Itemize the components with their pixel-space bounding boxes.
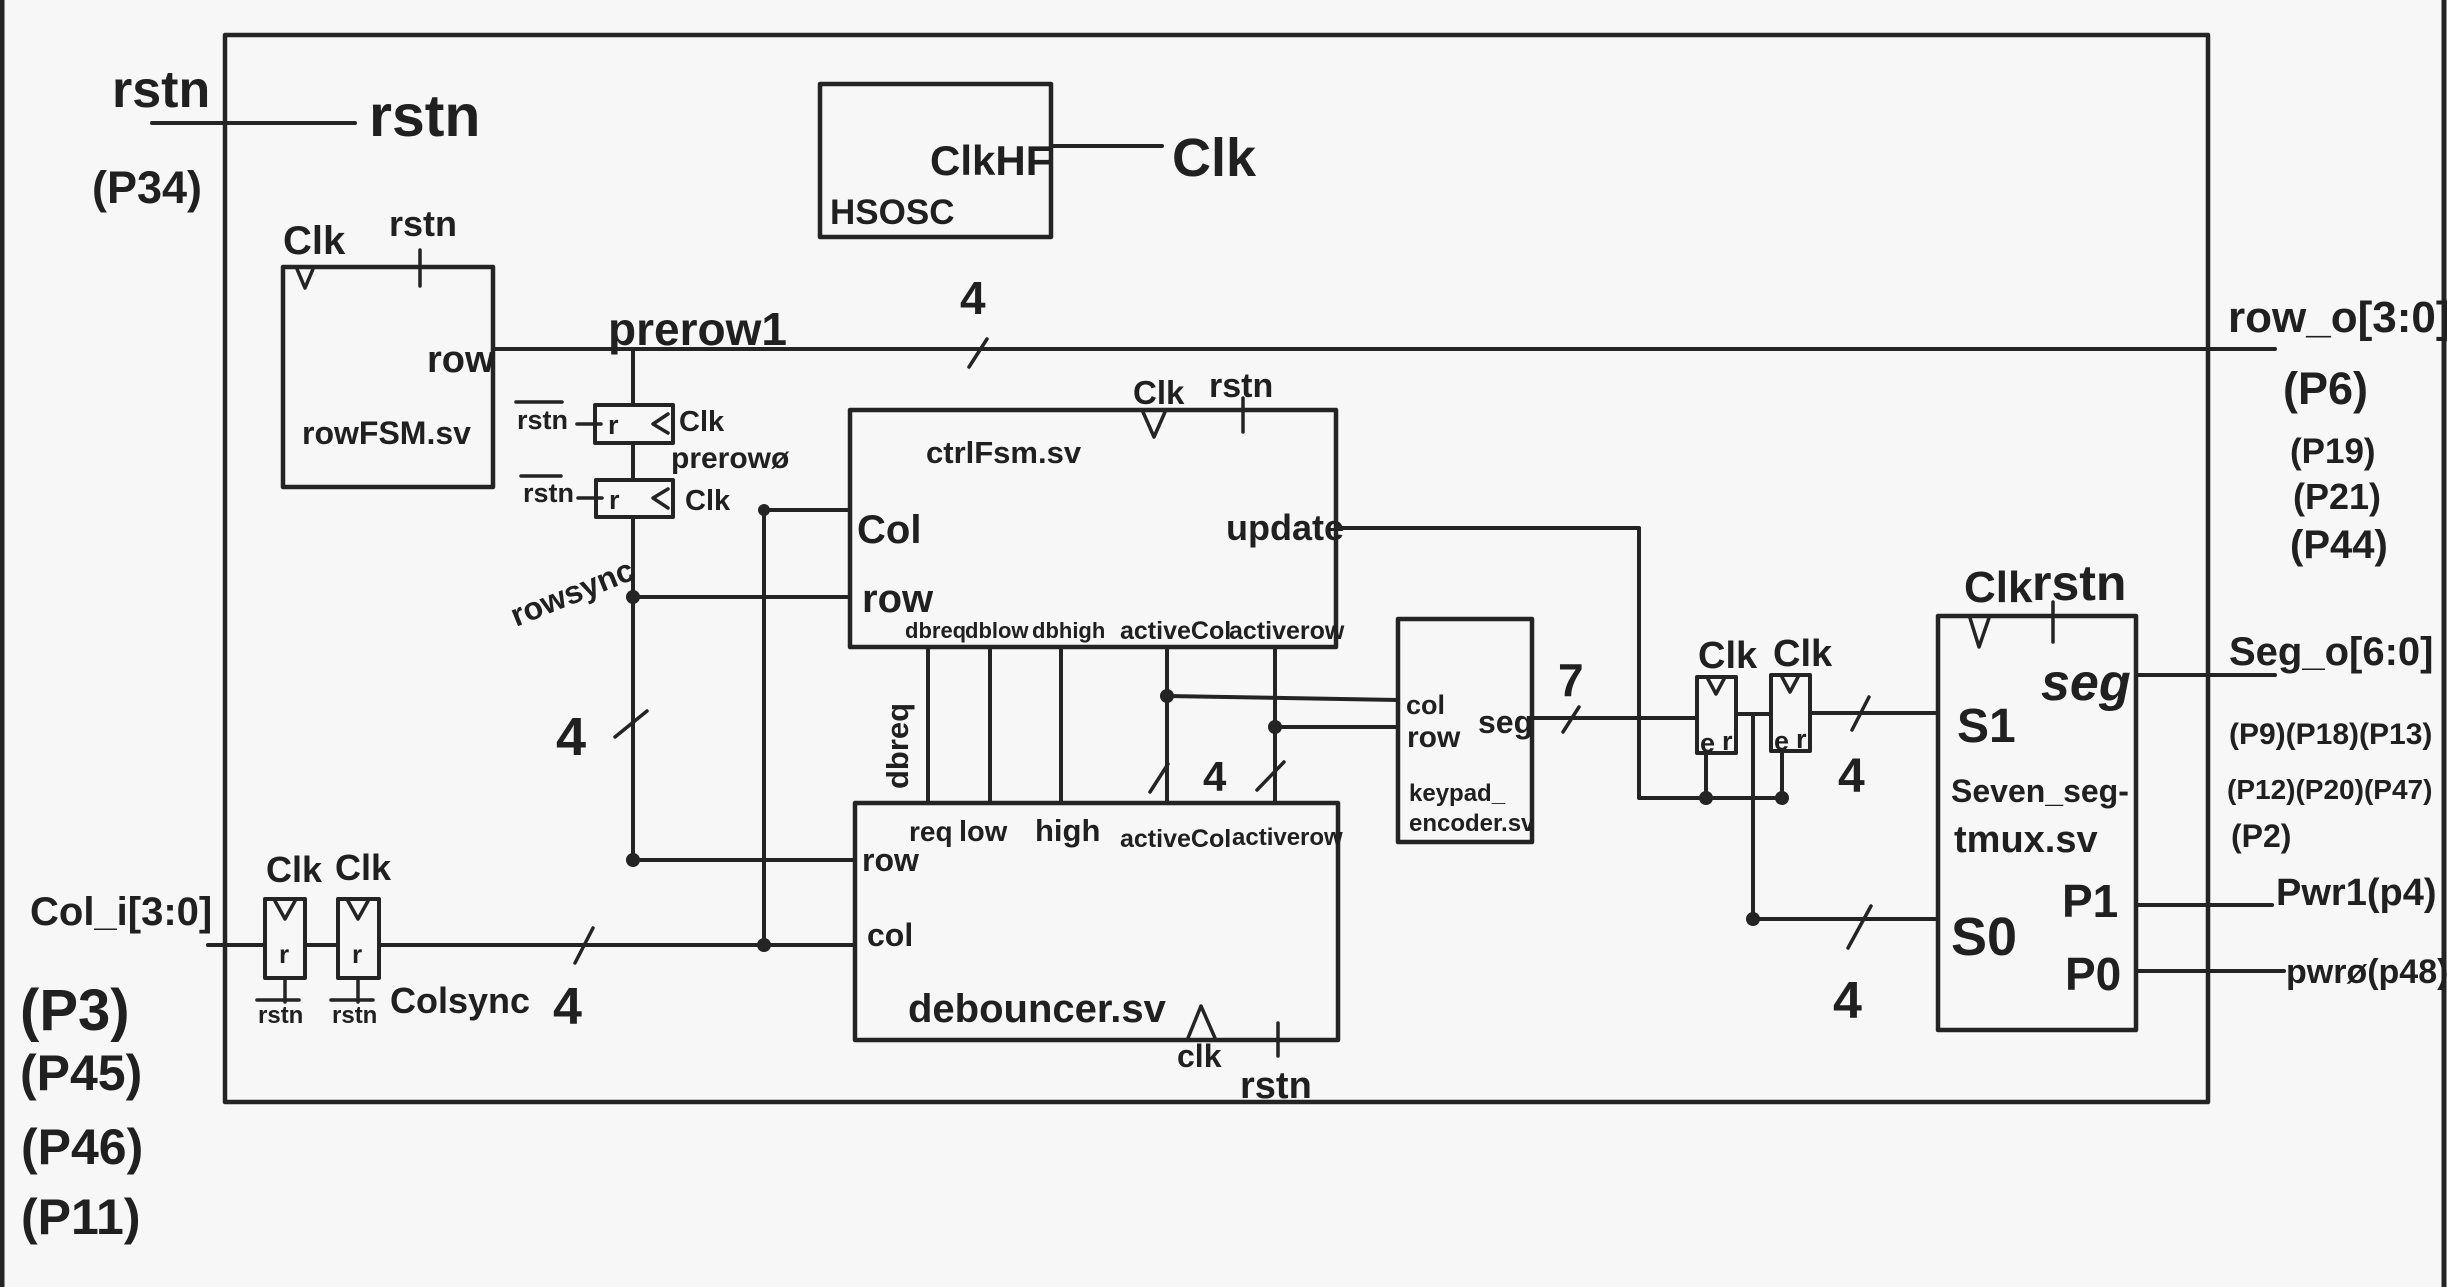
svg-text:prerowø: prerowø: [671, 442, 790, 475]
flip-flop seg reg FF5: [1697, 635, 1758, 798]
port seg_o labels: [2227, 630, 2434, 854]
svg-text:S0: S0: [1951, 907, 2017, 967]
svg-text:low: low: [959, 816, 1008, 848]
svg-text:col: col: [1406, 690, 1445, 720]
svg-text:Seg_o[6:0]: Seg_o[6:0]: [2229, 630, 2434, 674]
svg-text:(P9)(P18)(P13): (P9)(P18)(P13): [2229, 718, 2432, 751]
port rstn input: [92, 61, 480, 213]
svg-text:4: 4: [556, 707, 586, 767]
svg-text:(P19): (P19): [2290, 432, 2376, 471]
net prerow0 label: [671, 442, 790, 475]
module rowFSM.sv: [283, 203, 495, 487]
svg-text:r: r: [279, 939, 289, 969]
svg-text:(P34): (P34): [92, 162, 202, 213]
node rowsync corner: [626, 853, 640, 867]
svg-text:Seven_seg-: Seven_seg-: [1951, 773, 2129, 809]
flip-flop seg reg FF6: [1771, 633, 1833, 798]
net update: [1336, 528, 1789, 805]
module keypad_encoder.sv: [1398, 619, 1535, 842]
net S0 tap: [1746, 714, 1938, 1030]
svg-text:dbreq: dbreq: [880, 703, 915, 789]
svg-text:Clk: Clk: [679, 406, 725, 438]
svg-text:row: row: [427, 339, 495, 381]
net colsync: [379, 928, 855, 1036]
svg-text:row: row: [1407, 721, 1461, 754]
svg-text:Pwr1(p4): Pwr1(p4): [2276, 872, 2436, 914]
svg-text:4: 4: [960, 272, 986, 324]
frame left border: [0, 0, 5, 1287]
svg-text:tmux.sv: tmux.sv: [1954, 819, 2098, 861]
svg-text:clk: clk: [1177, 1038, 1222, 1074]
wire S1 into seven_seg: [1810, 697, 1938, 803]
svg-text:P0: P0: [2065, 948, 2121, 1000]
svg-text:(P3): (P3): [20, 978, 130, 1043]
net row / row_o[3:0] long wire: [493, 272, 2275, 367]
svg-text:encoder.sv: encoder.sv: [1409, 810, 1535, 837]
svg-text:seg: seg: [2041, 654, 2131, 712]
svg-text:Colsync: Colsync: [390, 980, 530, 1021]
svg-text:row: row: [862, 577, 934, 621]
svg-text:rstn: rstn: [517, 405, 568, 435]
svg-text:rstn: rstn: [2032, 555, 2126, 611]
frame right border: [2442, 0, 2447, 1287]
svg-text:rstn: rstn: [332, 1002, 377, 1029]
module debouncer.sv: [855, 803, 1343, 1107]
flip-flop sync FF1 (prerow1): [516, 402, 725, 443]
svg-text:(P46): (P46): [21, 1119, 143, 1175]
module seven_seg_tmux.sv: [1938, 555, 2136, 1030]
bus width 4: [1203, 753, 1227, 800]
svg-text:Clk: Clk: [685, 485, 731, 517]
svg-text:4: 4: [1203, 753, 1227, 800]
svg-text:r: r: [609, 485, 620, 515]
net seg (7 bits): [1532, 654, 1697, 732]
svg-text:row_o[3:0]: row_o[3:0]: [2228, 293, 2447, 342]
wire dblow: [988, 647, 992, 803]
svg-text:S1: S1: [1957, 700, 2016, 753]
svg-text:col: col: [867, 917, 913, 953]
svg-text:rstn: rstn: [1240, 1065, 1312, 1107]
svg-text:activerow: activerow: [1229, 617, 1345, 645]
wire activeCol: [1150, 647, 1398, 803]
wire between sync FFs: [631, 443, 635, 480]
svg-text:rowsync: rowsync: [505, 551, 639, 633]
net pwr1: [2136, 872, 2436, 914]
svg-text:r: r: [608, 410, 619, 440]
svg-text:rstn: rstn: [389, 203, 457, 244]
svg-text:Clk: Clk: [1964, 563, 2033, 612]
net seg_o[6:0]: [2136, 673, 2275, 677]
wire FF3 to FF4: [305, 943, 338, 947]
svg-text:7: 7: [1558, 654, 1584, 706]
port col_i[3:0]: [20, 890, 265, 1245]
wire prerow1 down to sync FF: [631, 349, 635, 405]
svg-text:prerow1: prerow1: [608, 303, 787, 355]
net dbreq label: [880, 703, 915, 789]
svg-text:(P6): (P6): [2283, 363, 2368, 414]
svg-text:rstn: rstn: [112, 61, 210, 119]
svg-text:Clk: Clk: [283, 219, 346, 263]
top-level module boundary rectangle: [225, 35, 2208, 1102]
wire rowsync to ctrlFSM row: [633, 595, 850, 599]
svg-text:Clk: Clk: [1172, 128, 1257, 188]
svg-text:Clk: Clk: [335, 847, 392, 888]
svg-text:r: r: [352, 939, 362, 969]
svg-text:(P45): (P45): [20, 1045, 142, 1101]
svg-text:dbhigh: dbhigh: [1032, 618, 1105, 643]
bus width 4 on rowsync: [556, 707, 647, 767]
svg-text:4: 4: [1838, 750, 1865, 803]
flip-flop col sync FF3: [257, 849, 323, 1029]
wire Clk from HSOSC: [1051, 128, 1257, 188]
svg-text:r: r: [1722, 726, 1733, 756]
svg-text:P1: P1: [2062, 875, 2118, 927]
flip-flop sync FF2 (prerow0): [521, 476, 731, 517]
wire activerow: [1257, 647, 1398, 803]
wire dbhigh: [1059, 647, 1063, 803]
net rowsync vertical: [631, 517, 635, 860]
node rowsync junction: [626, 590, 640, 604]
wire rowsync to debouncer row: [633, 858, 855, 862]
svg-text:(P21): (P21): [2293, 476, 2381, 517]
svg-text:4: 4: [1833, 972, 1862, 1030]
svg-text:update: update: [1226, 507, 1344, 548]
flip-flop col sync FF4: [331, 847, 392, 1029]
oscillator HSOSC: [820, 84, 1051, 237]
wire colsync up to ctrlFSM col: [757, 504, 850, 952]
svg-text:keypad_: keypad_: [1409, 780, 1506, 807]
svg-text:Clk: Clk: [1133, 374, 1185, 411]
svg-text:rstn: rstn: [523, 478, 574, 508]
svg-text:(P12)(P20)(P47): (P12)(P20)(P47): [2227, 774, 2432, 805]
svg-text:dbreq: dbreq: [905, 618, 966, 643]
svg-text:activerow: activerow: [1232, 824, 1343, 851]
svg-text:rstn: rstn: [1209, 367, 1273, 405]
svg-text:ctrlFsm.sv: ctrlFsm.sv: [926, 435, 1082, 470]
svg-text:r: r: [1796, 724, 1807, 754]
svg-text:Clk: Clk: [1773, 633, 1833, 675]
svg-text:HSOSC: HSOSC: [830, 193, 954, 232]
svg-text:(P44): (P44): [2290, 523, 2388, 567]
svg-text:(P2): (P2): [2231, 818, 2291, 854]
svg-text:Clk: Clk: [266, 849, 323, 890]
svg-text:(P11): (P11): [21, 1189, 141, 1245]
svg-text:pwrø(p48): pwrø(p48): [2286, 953, 2447, 991]
svg-text:dblow: dblow: [965, 618, 1029, 643]
module ctrlFSM.sv: [850, 367, 1345, 647]
svg-text:high: high: [1035, 813, 1100, 848]
wire dbreq: [926, 647, 930, 803]
svg-text:seg: seg: [1478, 704, 1533, 740]
svg-text:rstn: rstn: [258, 1002, 303, 1029]
wire FF5 to FF6: [1736, 712, 1771, 716]
svg-text:activeCol: activeCol: [1120, 825, 1231, 853]
net pwr0: [2136, 953, 2447, 991]
net rowsync label: [505, 551, 639, 633]
svg-text:rowFSM.sv: rowFSM.sv: [302, 415, 471, 451]
svg-text:Col_i[3:0]: Col_i[3:0]: [30, 890, 212, 934]
svg-text:Col: Col: [857, 508, 921, 552]
svg-text:rstn: rstn: [369, 83, 480, 149]
svg-text:ClkHF: ClkHF: [930, 137, 1051, 184]
svg-text:debouncer.sv: debouncer.sv: [908, 987, 1167, 1031]
svg-text:4: 4: [553, 978, 582, 1036]
svg-text:activeCol: activeCol: [1120, 617, 1231, 645]
port row_o[3:0] labels: [2228, 293, 2447, 567]
svg-text:row: row: [862, 842, 919, 878]
svg-text:Clk: Clk: [1698, 635, 1758, 677]
